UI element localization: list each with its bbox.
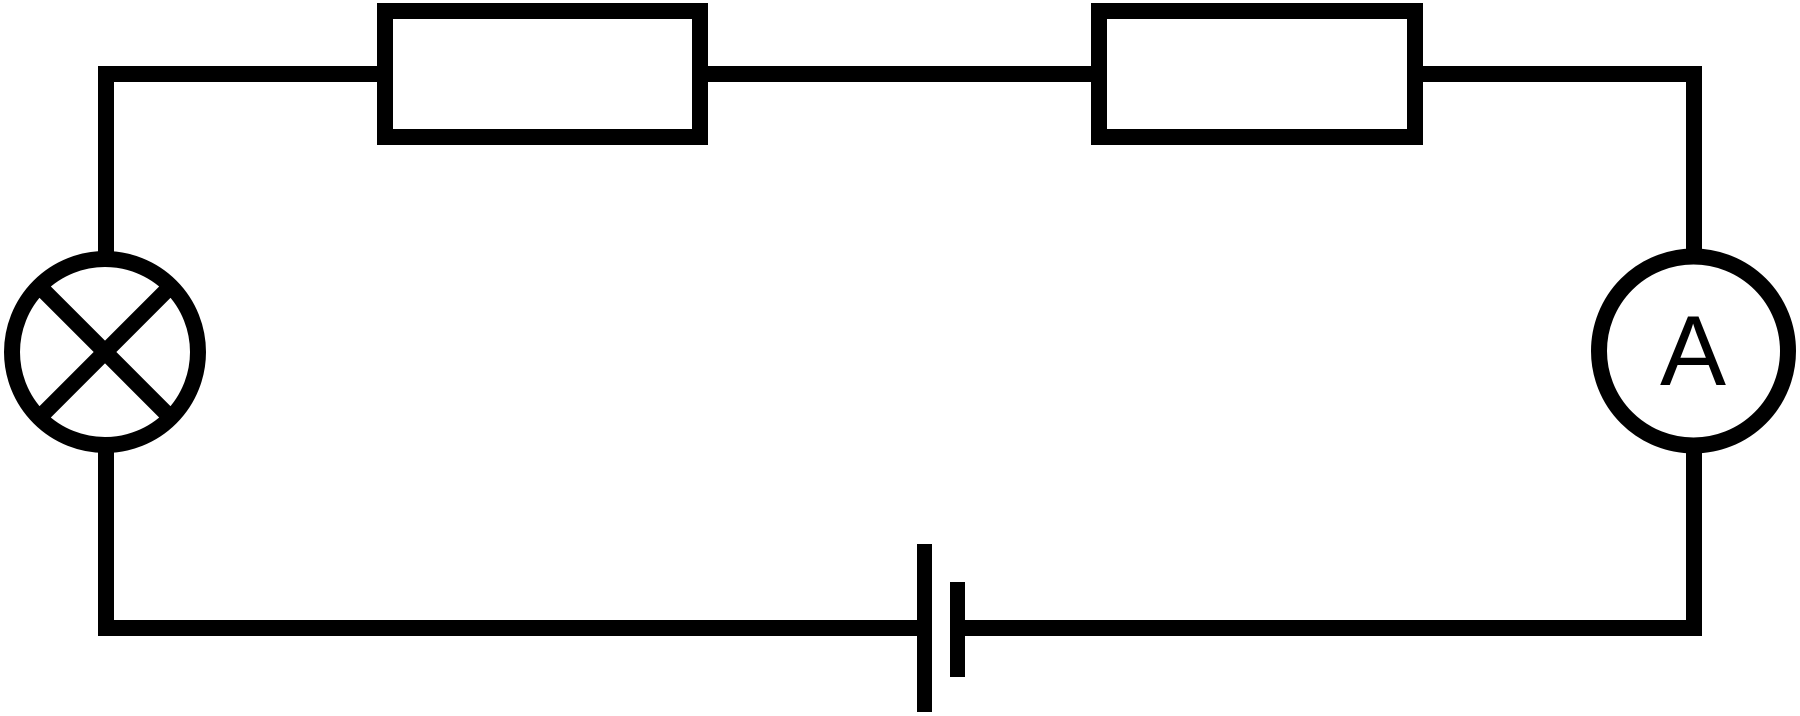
ammeter A (circle with letter A) [1599,257,1788,446]
lamp L1 (circle with X cross) [12,259,198,445]
battery cell (long and short plates) [917,544,965,712]
wire: bottom-right segment from battery short plate to right vertical up to ammeter [962,351,1694,628]
svg-text:A: A [1660,295,1726,406]
wire: top middle segment between resistor 1 and resistor 2 [703,66,1096,82]
wire: top-right segment from resistor 2 to right vertical down to ammeter [1418,74,1694,351]
resistor 2 (top right rectangle) [1099,11,1415,137]
wire: bottom-left segment from lamp down and right to battery long plate [106,352,920,628]
wire: left vertical + top-left horizontal segment to resistor 1 [106,74,390,352]
resistor 1 (top left rectangle) [385,11,700,137]
